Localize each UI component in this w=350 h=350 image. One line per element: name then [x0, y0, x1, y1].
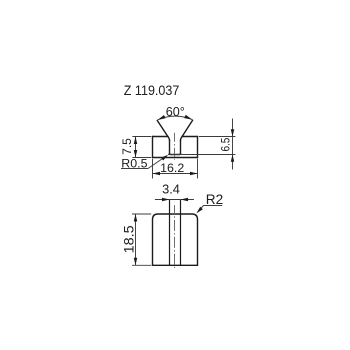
slot left wall (and 3.4 ext line): [169, 200, 171, 266]
ext line bottom (slot bottom extended right): [168, 154, 235, 156]
60 degree dimension arc: [158, 116, 193, 120]
top edge right segment: [182, 136, 198, 138]
arc arrowhead left: [158, 115, 166, 120]
bottom edge: [153, 157, 198, 159]
R0.5 arrowhead: [161, 155, 168, 161]
3.4 arrow left (outside pointing right): [162, 198, 170, 202]
svg-text:6.5: 6.5: [219, 137, 233, 151]
ext line top (top edge extended right): [199, 136, 236, 138]
dim line: [153, 173, 198, 175]
ext line bottom: [132, 157, 151, 159]
svg-text:7.5: 7.5: [120, 138, 134, 155]
ext line right: [197, 159, 199, 179]
slot right wall (and 3.4 ext line): [180, 200, 182, 266]
arc arrowhead right: [184, 115, 192, 120]
6.5 arrow bottom (outside, pointing up): [231, 155, 235, 162]
funnel left slant wall: [157, 120, 169, 140]
ext line top: [132, 213, 151, 215]
6.5 arrow top (outside, pointing down): [231, 129, 235, 136]
svg-text:60°: 60°: [166, 105, 185, 119]
3.4 arrow right (outside pointing left): [181, 198, 189, 202]
outline with R2 top corners: [153, 214, 198, 265]
svg-text:3.4: 3.4: [162, 182, 180, 197]
16.2 arrow right: [190, 172, 198, 176]
7.5 arrow up: [134, 137, 138, 145]
R2 leader: [198, 206, 222, 212]
3.4 dimension: [155, 199, 194, 201]
R0.5 leader: [121, 156, 167, 169]
slot right wall: [180, 140, 182, 154]
16.2 arrow left: [153, 172, 161, 176]
ext line top: [132, 136, 151, 138]
ext line bottom: [132, 264, 151, 266]
funnel right slant wall: [181, 120, 193, 140]
18.5 arrow down: [134, 258, 138, 266]
18.5 dimension: [132, 214, 151, 265]
dim line: [232, 119, 234, 170]
7.5 dimension: [132, 137, 151, 158]
svg-text:Z 119.037: Z 119.037: [124, 82, 180, 98]
6.5 dimension: [168, 119, 235, 170]
slot bottom with R0.5 corners: [170, 153, 181, 156]
dim line: [135, 214, 137, 265]
left edge: [152, 137, 154, 158]
18.5 arrow up: [134, 214, 138, 222]
svg-text:R2: R2: [206, 192, 223, 207]
slot left wall: [169, 140, 171, 154]
centerline bottom view: [174, 205, 176, 268]
R2 arrowhead: [196, 207, 202, 214]
svg-text:18.5: 18.5: [121, 225, 136, 253]
7.5 arrow down: [134, 150, 138, 158]
svg-text:16.2: 16.2: [160, 161, 184, 175]
dim line: [135, 137, 137, 158]
centerline top view: [174, 133, 176, 160]
right edge: [197, 137, 199, 158]
16.2 dimension: [153, 159, 198, 179]
top edge left segment: [153, 136, 169, 138]
svg-text:R0.5: R0.5: [121, 156, 147, 170]
ext line left: [152, 159, 154, 179]
